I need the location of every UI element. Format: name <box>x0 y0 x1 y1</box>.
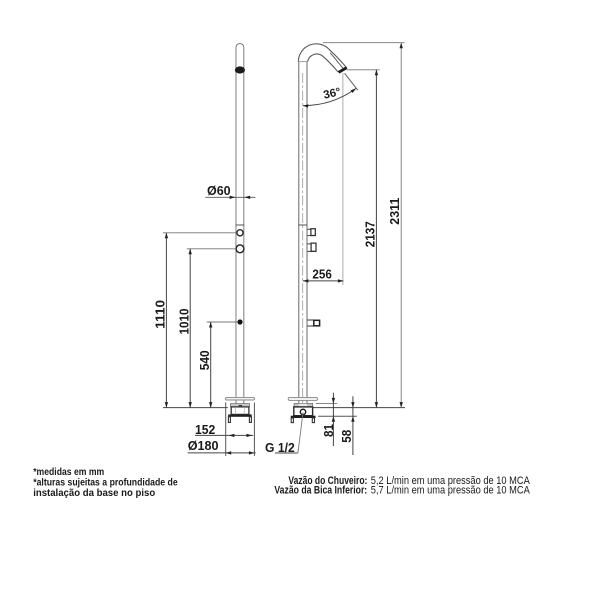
svg-text:36°: 36° <box>322 86 342 101</box>
base flange front view <box>225 397 254 400</box>
svg-text:G 1/2: G 1/2 <box>265 440 295 455</box>
bend joint seam side view <box>298 61 307 63</box>
spout button front view <box>237 319 242 324</box>
dimension D180 <box>188 403 256 456</box>
spout end cap side view <box>339 68 347 73</box>
base foot right side view <box>312 418 314 423</box>
base foot left side view <box>291 418 293 423</box>
svg-text:*medidas em mm: *medidas em mm <box>33 467 104 478</box>
lower spout side view <box>308 320 320 326</box>
footnote text block <box>33 467 178 499</box>
dimension 256 <box>303 266 344 282</box>
column front view tube <box>235 47 244 403</box>
dimension 1010 <box>176 249 236 408</box>
svg-text:instalação da base no piso: instalação da base no piso <box>33 488 155 499</box>
shower head front view <box>235 66 245 73</box>
dimension 152 <box>195 422 253 437</box>
label G 1/2 with leader <box>265 413 303 455</box>
base foot left front view <box>228 417 230 423</box>
base foot right front view <box>249 417 251 423</box>
knob upper front view <box>237 230 243 236</box>
centerline side view <box>302 73 304 413</box>
svg-text:540: 540 <box>197 350 212 370</box>
dimension D60 <box>205 183 255 199</box>
base body side view <box>294 407 313 416</box>
base collar front view <box>230 404 249 407</box>
svg-text:81: 81 <box>321 424 336 437</box>
knob upper side view <box>308 229 316 236</box>
flow rate text block <box>274 475 530 497</box>
seam front view <box>236 224 245 226</box>
svg-text:58: 58 <box>339 430 354 443</box>
dimension 2137 <box>347 70 380 408</box>
svg-text:1010: 1010 <box>176 309 191 335</box>
svg-text:2137: 2137 <box>362 221 377 247</box>
dimension 2311 <box>323 43 405 408</box>
dimension 1110 <box>152 233 235 408</box>
svg-text:*alturas sujeitas a profundida: *alturas sujeitas a profundidade de <box>33 478 178 489</box>
svg-text:Ø180: Ø180 <box>188 438 219 453</box>
svg-text:256: 256 <box>312 266 331 281</box>
angle 36 degrees arc <box>303 73 358 107</box>
dimension 540 <box>197 322 238 408</box>
dimension 58 <box>339 396 355 455</box>
svg-text:5,7 L/min em uma pressão de 10: 5,7 L/min em uma pressão de 10 MCA <box>371 485 531 497</box>
svg-text:2311: 2311 <box>387 198 402 225</box>
base flange side view <box>288 397 317 400</box>
svg-text:Ø60: Ø60 <box>207 183 231 198</box>
svg-text:1110: 1110 <box>152 300 167 329</box>
svg-text:Vazão da Bica Inferior:: Vazão da Bica Inferior: <box>274 485 367 497</box>
knob lower front view <box>236 245 244 253</box>
inlet port side view <box>300 409 305 414</box>
spout tip extension line <box>342 73 344 285</box>
svg-text:152: 152 <box>195 422 215 437</box>
base bar front view <box>228 414 252 416</box>
floor line <box>163 407 228 409</box>
knob lower side view <box>308 243 317 251</box>
base body front view <box>231 407 249 415</box>
base collar side view <box>294 403 313 407</box>
seam side view <box>298 224 307 226</box>
base bar side view <box>291 416 316 418</box>
dimension 81 <box>316 393 357 446</box>
column side view tube with spout bend <box>298 44 346 404</box>
